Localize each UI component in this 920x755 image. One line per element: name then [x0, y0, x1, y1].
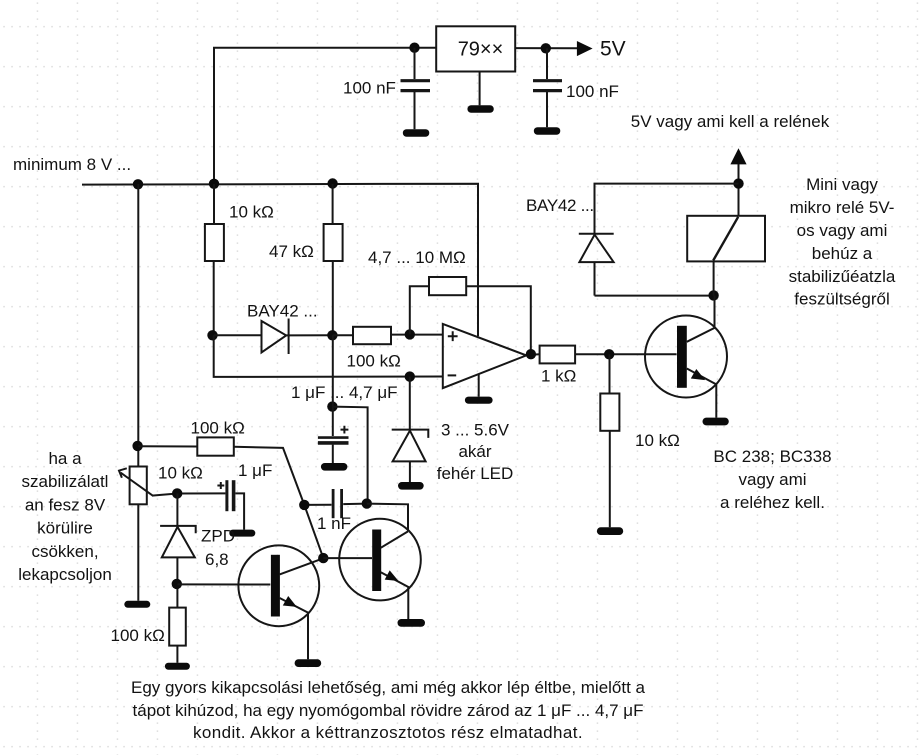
wire 10k pulldown to ground: [609, 431, 611, 528]
transistor Q2 circle: [238, 545, 319, 626]
resistor 10 kOhm (pulldown): [600, 394, 619, 431]
svg-text:100 kΩ: 100 kΩ: [191, 419, 245, 438]
svg-text:minimum 8 V ...: minimum 8 V ...: [13, 155, 131, 174]
ground 1uF: [229, 530, 255, 537]
capacitor C1 100 nF (input): [401, 48, 431, 130]
node base / 10k pulldown: [604, 349, 614, 359]
ground LED: [398, 482, 424, 490]
node input of 79xx: [409, 43, 419, 53]
Q1 emitter arrow: [691, 369, 705, 380]
wire Q2 collector node to Q3 base: [323, 557, 372, 559]
LOWERLEFT: [119, 184, 425, 670]
wire relay bottom pin: [713, 261, 715, 295]
wire rail down to trimmer: [137, 184, 139, 467]
svg-text:vagy ami: vagy ami: [738, 470, 806, 489]
label relay note block: [789, 175, 896, 309]
svg-text:1 μF ... 4,7 μF: 1 μF ... 4,7 μF: [291, 383, 398, 402]
wire top input rail: [214, 48, 436, 184]
transistor Q3 emitter: [381, 572, 409, 619]
svg-text:körülire: körülire: [37, 519, 93, 538]
Q2 emitter arrow: [283, 596, 297, 607]
svg-text:1 kΩ: 1 kΩ: [541, 367, 576, 386]
transistor Q3 circle: [339, 519, 421, 601]
wire wiper row: [152, 493, 225, 495]
ground trimmer: [124, 601, 150, 608]
node A (anode side): [207, 330, 217, 340]
WIRES-TOP: [214, 26, 593, 184]
svg-text:10 kΩ: 10 kΩ: [635, 431, 680, 450]
node relay top / catch diode: [733, 178, 743, 188]
node wiper / zener: [172, 488, 182, 498]
wire 100k pulldown to ground: [176, 646, 178, 663]
svg-text:BC 238; BC338: BC 238; BC338: [713, 447, 831, 466]
regulator U1 79xx box: [436, 26, 515, 71]
wire relay top to diode cathode: [595, 184, 739, 234]
svg-text:100 nF: 100 nF: [343, 79, 396, 98]
node B lower corner: [327, 401, 337, 411]
transistor Q2 emitter: [280, 598, 308, 659]
wire 100k sense diagonal to 1nF: [234, 447, 323, 558]
svg-text:4,7 ... 10 MΩ: 4,7 ... 10 MΩ: [368, 248, 466, 267]
svg-text:feszültségről: feszültségről: [794, 290, 889, 309]
MID: [82, 178, 677, 535]
wire feedback to output: [466, 286, 531, 354]
diode BAY42 (relay catch): [579, 234, 614, 296]
wire 10k pulldown top: [609, 354, 611, 393]
wire diode anode to relay bottom: [595, 295, 714, 297]
label LED note: [437, 421, 514, 484]
node trimmer / 100k sense: [132, 441, 142, 451]
node rail / pot branch: [133, 179, 143, 189]
svg-text:47 kΩ: 47 kΩ: [269, 242, 314, 261]
Q3 emitter arrow: [385, 570, 399, 581]
svg-text:behúz a: behúz a: [812, 244, 873, 263]
ground Q2 emitter: [295, 659, 322, 667]
wire arrow to relay: [738, 164, 740, 216]
relay switch lever: [713, 217, 738, 261]
wire node A to diode: [214, 334, 262, 336]
svg-text:3 ... 5.6V: 3 ... 5.6V: [441, 421, 510, 440]
wire 100k to + input: [391, 334, 443, 336]
svg-text:csökken,: csökken,: [31, 542, 98, 561]
wire 1nF right to Q3 collector: [367, 504, 408, 532]
wire 47k bottom to node B: [332, 261, 334, 335]
svg-text:1 μF: 1 μF: [238, 461, 272, 480]
svg-text:ha a: ha a: [48, 449, 82, 468]
resistor 100 kOhm (to + input): [353, 327, 391, 344]
svg-text:100 kΩ: 100 kΩ: [111, 626, 165, 645]
transistor Q3 collector: [381, 531, 408, 547]
wire node B to 100k: [333, 334, 353, 336]
ground C1: [403, 129, 430, 137]
svg-text:10 kΩ: 10 kΩ: [229, 203, 274, 222]
node zener / Q2 base: [172, 579, 182, 589]
capacitor C2 100 nF (output): [533, 48, 562, 127]
transistor Q1 collector: [687, 296, 715, 342]
resistor 47 kOhm: [324, 224, 343, 261]
label left note block: [18, 449, 112, 584]
svg-text:an fesz 8V: an fesz 8V: [25, 495, 106, 514]
pin GND of 79xx: [479, 72, 481, 106]
svg-text:a reléhez kell.: a reléhez kell.: [720, 493, 825, 512]
wire trimmer bottom to ground: [137, 504, 139, 601]
wire 10k bottom to diode node A: [213, 261, 215, 335]
capacitor 1 nF: [304, 489, 367, 518]
svg-text:szabilizálatl: szabilizálatl: [22, 472, 109, 491]
5V supply arrow (relay): [730, 148, 746, 164]
node output of 79xx: [541, 43, 551, 53]
transistor Q1 base bar: [677, 326, 687, 388]
wire node to 100k sense: [138, 445, 197, 447]
5V output arrow: [577, 41, 593, 56]
transistor Q2 base bar: [271, 555, 280, 617]
wire op-amp output: [526, 353, 539, 356]
node + input / feedback: [405, 329, 415, 339]
svg-text:akár: akár: [458, 442, 491, 461]
svg-text:tápot kihúzod, ha egy nyomógom: tápot kihúzod, ha egy nyomógombal rövidr…: [133, 701, 644, 720]
ground 79xx: [467, 105, 493, 112]
diode BAY42 (horizontal): [262, 319, 333, 355]
svg-text:kondit. Akkor a kéttranzosztot: kondit. Akkor a kéttranzosztotos rész el…: [193, 723, 583, 742]
svg-text:os vagy ami: os vagy ami: [797, 221, 888, 240]
ground C2: [534, 127, 561, 135]
capacitor 1uF...4,7uF electrolytic: [318, 407, 349, 463]
wire 1k to base: [575, 353, 677, 355]
ground big cap: [321, 463, 348, 471]
svg-text:BAY42 ...: BAY42 ...: [247, 302, 318, 321]
resistor 100 kOhm (sense): [197, 437, 234, 455]
wire node B down: [332, 335, 334, 406]
transistor Q3 base bar: [372, 530, 381, 592]
resistor 4,7...10 MOhm feedback: [429, 277, 466, 295]
wire 10k top: [213, 184, 215, 224]
svg-text:10 kΩ: 10 kΩ: [158, 464, 203, 483]
wire node B corner to 1nF right branch: [333, 407, 368, 504]
svg-text:lekapcsoljon: lekapcsoljon: [18, 565, 112, 584]
node 1nF right: [362, 498, 372, 508]
ground op-amp: [465, 397, 493, 404]
ground 10k pulldown: [597, 527, 623, 535]
wire 47k top: [332, 184, 334, 224]
resistor 100 kOhm (base pulldown): [169, 608, 186, 646]
svg-text:stabilizűéatzla: stabilizűéatzla: [789, 267, 896, 286]
node rail / 10k branch: [209, 179, 219, 189]
node - input / LED branch: [405, 371, 415, 381]
wire op-amp V- to ground: [478, 374, 480, 397]
svg-text:1 nF: 1 nF: [317, 514, 351, 533]
node rail / 47k branch: [327, 178, 337, 188]
wire 79xx output to 5V: [515, 47, 577, 49]
node output / feedback: [526, 349, 536, 359]
zener/LED 3...5.6V: [392, 377, 429, 482]
label bottom note: [131, 678, 646, 742]
svg-text:5V: 5V: [600, 38, 626, 61]
wire node A down to - input: [214, 335, 444, 377]
svg-text:fehér LED: fehér LED: [437, 464, 514, 483]
transistor Q1 emitter: [687, 369, 717, 418]
wire zener node to Q2 base: [177, 583, 270, 585]
svg-text:Mini vagy: Mini vagy: [806, 175, 878, 194]
node 1nF left: [299, 500, 309, 510]
ground Q3 emitter: [398, 619, 426, 627]
svg-text:mikro relé 5V-: mikro relé 5V-: [790, 198, 895, 217]
svg-text:Egy gyors kikapcsolási lehetős: Egy gyors kikapcsolási lehetőség, ami mé…: [131, 678, 646, 697]
relay K1 box: [687, 216, 765, 262]
svg-text:BAY42 ...: BAY42 ...: [526, 196, 594, 215]
trimmer wiper arrow: [119, 468, 153, 496]
op-amp + mark: [448, 331, 458, 341]
svg-text:100 kΩ: 100 kΩ: [347, 352, 401, 371]
svg-text:79××: 79××: [458, 39, 504, 61]
svg-text:5V vagy ami kell a relének: 5V vagy ami kell a relének: [631, 112, 830, 131]
resistor 1 kOhm: [540, 346, 576, 364]
svg-text:100 nF: 100 nF: [566, 82, 619, 101]
wire main 8V rail: [82, 184, 478, 337]
op-amp U2 comparator: [443, 324, 527, 388]
node Q2 collector / Q3 base: [318, 553, 328, 563]
transistor Q1 BC238 circle: [645, 316, 727, 398]
zener ZPD 6,8: [160, 493, 196, 607]
wire feedback up: [410, 286, 429, 334]
node B (cathode / 47k / 100k): [327, 330, 337, 340]
node relay bottom / collector: [708, 290, 718, 300]
transistor Q2 collector: [280, 558, 324, 574]
capacitor 1 uF (wiper): [217, 480, 244, 529]
op-amp - mark: [448, 374, 457, 376]
label BC note block: [713, 447, 831, 512]
RIGHT: [579, 148, 765, 425]
svg-text:ZPD: ZPD: [201, 527, 235, 546]
svg-text:6,8: 6,8: [205, 550, 229, 569]
ground 100k pulldown: [165, 663, 190, 670]
trimmer 10 kOhm body: [130, 467, 147, 505]
resistor 10 kOhm (left divider): [205, 224, 224, 261]
ground Q1 emitter: [703, 418, 729, 426]
